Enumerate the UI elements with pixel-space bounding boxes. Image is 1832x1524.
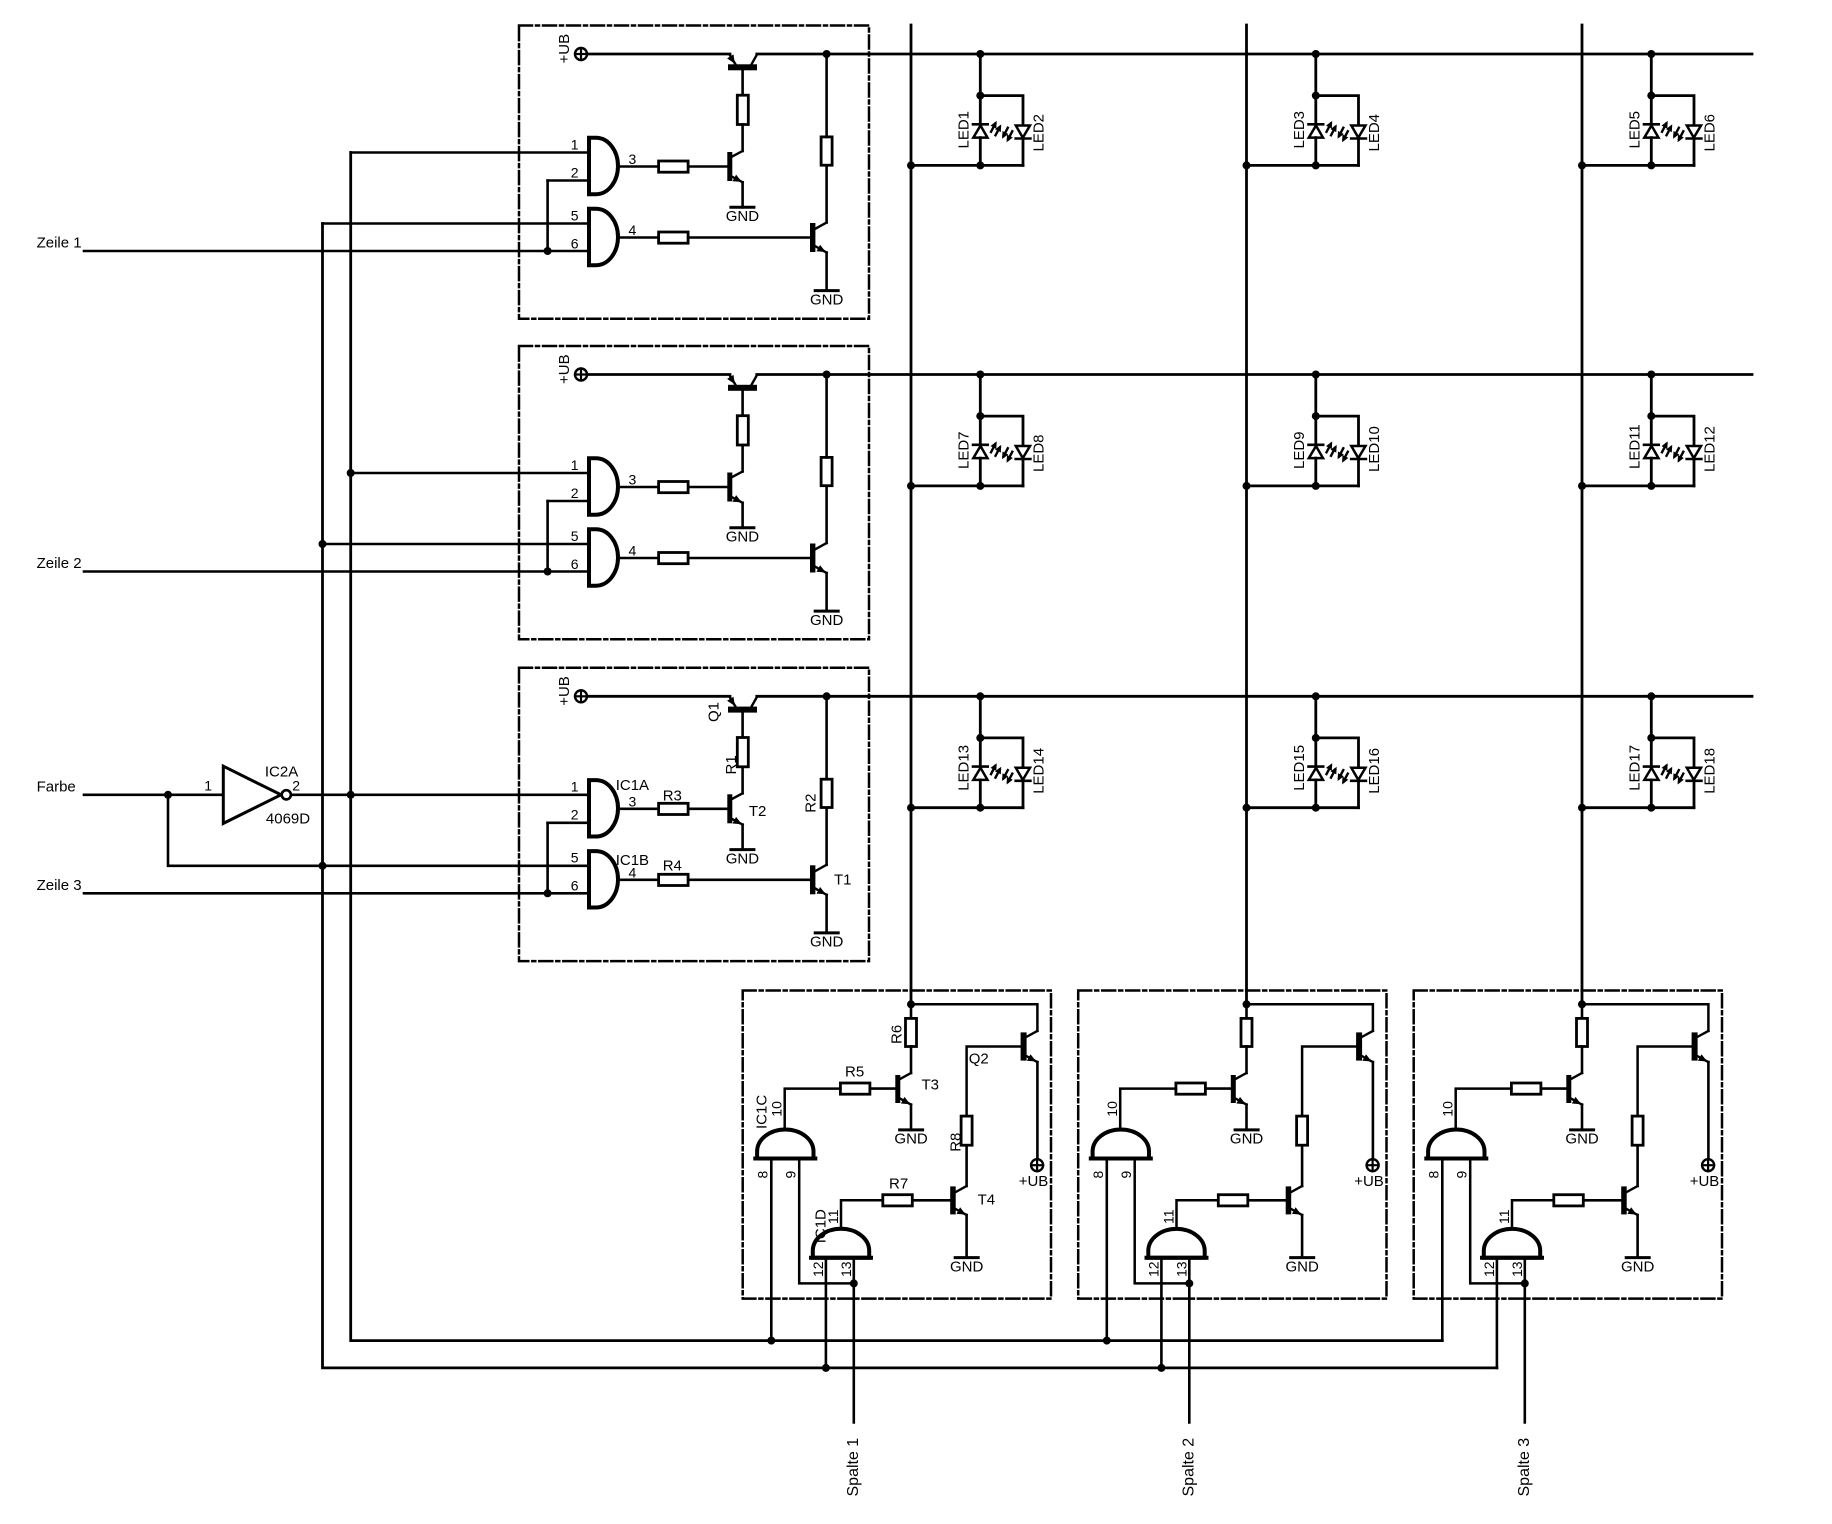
junction	[1578, 482, 1586, 490]
AND gate D (column block 2)	[1148, 1229, 1204, 1258]
wire LED pair to column rail	[1582, 484, 1694, 487]
wire branch to LED12	[1651, 416, 1694, 446]
junction	[544, 889, 552, 897]
resistor gate C series resistor (column block 2)	[1176, 1083, 1206, 1094]
AND gate A (row block 2)	[589, 458, 618, 514]
transistor NPN driver upper (column block 3)	[1566, 1073, 1582, 1130]
LED 16	[1338, 768, 1366, 808]
power +UB (column block 3)	[1702, 1159, 1714, 1171]
junction	[823, 50, 831, 58]
LED 10	[1338, 446, 1366, 486]
svg-text:13: 13	[838, 1261, 854, 1277]
wire R6 to T3 collector	[910, 1047, 913, 1074]
junction	[347, 469, 355, 477]
AND gate B (row block 2)	[589, 529, 618, 585]
transistor T3 (column block 1)	[895, 1073, 911, 1130]
LED 17	[1644, 738, 1672, 808]
svg-text:LED6: LED6	[1701, 114, 1718, 152]
svg-text:12: 12	[810, 1261, 826, 1277]
ground GND (column block 2 lower)	[1286, 1258, 1320, 1276]
svg-text:T2: T2	[749, 803, 767, 820]
wire LED pair to column rail	[1247, 484, 1359, 487]
node Zeile 1 input wire	[84, 250, 589, 253]
svg-text:R6: R6	[889, 1025, 906, 1044]
LED 14	[1002, 768, 1030, 808]
junction	[1647, 161, 1655, 169]
junction	[1647, 482, 1655, 490]
ground GND (row block 3 upper)	[726, 850, 760, 868]
wire gate B output pin 4 to R4	[618, 557, 659, 560]
power +UB (column block 1)	[1031, 1159, 1043, 1171]
ground GND (row block 1 lower)	[810, 291, 844, 309]
wire R4 to T1 base	[688, 878, 810, 881]
wire rail junction to Q2 collector branch	[1247, 1004, 1373, 1031]
AND gate A (row block 1)	[589, 138, 618, 194]
resistor gate D series resistor (column block 3)	[1554, 1195, 1584, 1206]
svg-text:1: 1	[571, 457, 579, 473]
svg-text:5: 5	[571, 850, 579, 866]
LED 13	[973, 738, 1001, 808]
transistor T2 (row block 3)	[727, 793, 742, 849]
row driver block 1 (dash-dot boundary)	[519, 26, 869, 319]
resistor coupling resistor (column block 3)	[1632, 1116, 1643, 1145]
svg-text:+UB: +UB	[1019, 1173, 1049, 1190]
wire pin 8 input	[1106, 1159, 1109, 1341]
wire row tap	[1650, 375, 1653, 417]
junction	[1243, 1000, 1251, 1008]
svg-text:GND: GND	[950, 1258, 984, 1275]
junction	[822, 1364, 830, 1372]
junction	[976, 371, 984, 379]
wire branch to LED14	[980, 738, 1023, 768]
svg-text:13: 13	[1174, 1261, 1190, 1277]
svg-text:+UB: +UB	[556, 34, 573, 64]
ground GND (row block 2 upper)	[726, 528, 760, 546]
resistor base resistor upper (row block 1)	[737, 95, 748, 124]
wire R7 to T4 base	[1248, 1199, 1286, 1202]
svg-text:3: 3	[629, 472, 637, 488]
resistor R3 (row block 3)	[659, 803, 689, 814]
junction	[1243, 161, 1251, 169]
node Zeile 2 input wire	[84, 570, 589, 573]
svg-text:GND: GND	[726, 208, 760, 225]
svg-text:+UB: +UB	[556, 354, 573, 384]
junction	[347, 791, 355, 799]
svg-text:LED16: LED16	[1366, 748, 1383, 794]
transistor PNP row switch (row block 1)	[727, 54, 757, 95]
svg-text:Farbe: Farbe	[37, 778, 76, 795]
LED 5	[1644, 96, 1672, 166]
svg-text:9: 9	[1118, 1171, 1134, 1179]
wire LED pair to column rail	[911, 164, 1023, 167]
wire R8 to Q2 base	[967, 1047, 1021, 1117]
junction	[976, 50, 984, 58]
wire row 3 supply rail from +UB to Q1 emitter	[587, 695, 730, 698]
wire block1 gate A pin1 feed	[351, 151, 589, 154]
ground GND (row block 2 lower)	[810, 611, 844, 629]
svg-text:T1: T1	[834, 872, 852, 889]
resistor gate D series resistor (column block 2)	[1218, 1195, 1248, 1206]
wire	[741, 125, 744, 152]
wire block1 gate B pin5 feed	[323, 222, 590, 225]
junction	[823, 371, 831, 379]
wire R5 to T3 base	[1541, 1087, 1566, 1090]
LED 15	[1309, 738, 1337, 808]
svg-text:LED8: LED8	[1030, 434, 1047, 472]
svg-text:Q2: Q2	[969, 1051, 989, 1068]
transistor NPN driver lower (column block 2)	[1286, 1145, 1302, 1257]
svg-text:12: 12	[1146, 1261, 1162, 1277]
svg-text:R5: R5	[845, 1063, 864, 1080]
svg-text:LED9: LED9	[1291, 431, 1308, 469]
wire pin 2 tie to pin 6	[548, 500, 589, 503]
junction	[1578, 161, 1586, 169]
resistor collector resistor upper (column block 3)	[1577, 1018, 1588, 1046]
junction	[1312, 482, 1320, 490]
wire rail junction to Q2 collector branch	[1582, 1004, 1708, 1031]
wire gate IC1C output pin 10	[785, 1089, 841, 1131]
ground GND (row block 1 upper)	[726, 207, 760, 225]
wire row 1 line from Q1 collector to right end	[757, 53, 1752, 56]
net inverted-colour bus (IC2A output distribution)	[351, 153, 1443, 1341]
svg-text:4069D: 4069D	[266, 811, 310, 828]
wire pin 9 input tied to pin 13	[799, 1159, 854, 1284]
svg-text:4: 4	[629, 222, 637, 238]
junction	[1578, 804, 1586, 812]
svg-text:9: 9	[1454, 1171, 1470, 1179]
resistor R7 (column block 1)	[883, 1195, 913, 1206]
svg-text:IC1C: IC1C	[754, 1095, 771, 1129]
junction	[976, 692, 984, 700]
wire R5 to T3 base	[870, 1087, 895, 1090]
junction	[544, 568, 552, 576]
svg-text:LED1: LED1	[955, 111, 972, 149]
row driver block 2 (dash-dot boundary)	[519, 346, 869, 639]
node Spalte 1 wire (pin 13)	[852, 1258, 855, 1423]
svg-text:8: 8	[1090, 1171, 1106, 1179]
svg-text:R4: R4	[663, 858, 682, 875]
wire R7 to T4 base	[1583, 1199, 1621, 1202]
svg-text:GND: GND	[894, 1130, 928, 1147]
AND gate C (column block 3)	[1428, 1130, 1484, 1159]
resistor collector resistor upper (column block 2)	[1241, 1018, 1252, 1046]
junction	[1521, 1279, 1529, 1287]
junction	[907, 804, 915, 812]
wire branch to LED16	[1316, 738, 1359, 768]
svg-text:GND: GND	[1286, 1258, 1320, 1275]
junction	[319, 540, 327, 548]
wire R6 to T3 collector	[1581, 1047, 1584, 1074]
LED 12	[1673, 446, 1701, 486]
junction	[1312, 161, 1320, 169]
wire row 1 supply rail from +UB to Q1 emitter	[587, 53, 730, 56]
svg-text:6: 6	[571, 235, 579, 251]
resistor gate B series resistor (row block 2)	[659, 553, 689, 564]
junction	[976, 412, 984, 420]
svg-text:IC1D: IC1D	[813, 1209, 830, 1243]
node Spalte 2 wire (pin 13)	[1188, 1258, 1191, 1423]
resistor R8 (column block 1)	[961, 1116, 972, 1145]
svg-text:+UB: +UB	[1354, 1173, 1384, 1190]
wire R5 to T3 base	[1205, 1087, 1230, 1090]
svg-text:2: 2	[571, 807, 579, 823]
wire gate IC1D output pin 11 to R7	[841, 1200, 883, 1229]
power +UB (row block 3)	[575, 690, 587, 702]
svg-text:LED15: LED15	[1291, 745, 1308, 791]
wire pin 12 input	[1160, 1258, 1163, 1368]
junction	[1157, 1364, 1165, 1372]
junction	[1578, 1000, 1586, 1008]
wire R7 to T4 base	[912, 1199, 950, 1202]
wire column 3 rail	[1581, 25, 1584, 1004]
wire block2 gate A pin1 feed	[351, 472, 589, 475]
svg-text:11: 11	[1496, 1209, 1512, 1224]
svg-text:LED12: LED12	[1701, 426, 1718, 472]
svg-text:GND: GND	[810, 291, 844, 308]
wire LED pair to column rail	[911, 484, 1023, 487]
svg-text:13: 13	[1509, 1261, 1525, 1277]
svg-text:10: 10	[1440, 1101, 1456, 1117]
svg-text:LED3: LED3	[1291, 111, 1308, 149]
junction	[1312, 371, 1320, 379]
wire branch to LED2	[980, 96, 1023, 126]
svg-text:GND: GND	[1230, 1130, 1264, 1147]
row driver block 3 (dash-dot boundary)	[519, 668, 869, 961]
junction	[164, 791, 172, 799]
AND gate B (row block 1)	[589, 209, 618, 265]
svg-text:3: 3	[629, 151, 637, 167]
junction	[1185, 1279, 1193, 1287]
wire junction to R6	[1581, 1004, 1584, 1018]
LED 6	[1673, 126, 1701, 166]
transistor NPN driver lower (row block 1)	[810, 165, 827, 290]
svg-text:8: 8	[1426, 1171, 1442, 1179]
junction	[976, 804, 984, 812]
junction	[823, 692, 831, 700]
column driver block 2 (dash-dot boundary)	[1078, 991, 1386, 1299]
svg-text:IC1A: IC1A	[616, 777, 649, 794]
inverter IC2A (4069D)	[223, 766, 291, 823]
AND gate IC1B (row block 3)	[589, 851, 618, 907]
svg-text:Zeile 2: Zeile 2	[37, 555, 82, 572]
svg-text:R7: R7	[889, 1176, 908, 1193]
svg-text:GND: GND	[726, 529, 760, 546]
resistor collector resistor (row block 2)	[821, 457, 832, 485]
resistor coupling resistor (column block 2)	[1297, 1116, 1308, 1145]
wire	[741, 445, 744, 472]
svg-text:8: 8	[755, 1171, 771, 1179]
wire R3 to T2 base	[688, 486, 727, 489]
svg-text:2: 2	[571, 485, 579, 501]
node Farbe input wire	[84, 793, 223, 796]
LED 8	[1002, 446, 1030, 486]
svg-text:LED11: LED11	[1626, 424, 1643, 469]
resistor collector resistor (row block 1)	[821, 137, 832, 165]
wire row tap	[1314, 54, 1317, 96]
transistor NPN column switch (column block 2)	[1356, 1031, 1373, 1159]
svg-text:R3: R3	[663, 788, 682, 805]
transistor NPN driver upper (row block 2)	[727, 472, 742, 528]
svg-text:LED5: LED5	[1626, 111, 1643, 149]
svg-text:LED10: LED10	[1366, 426, 1383, 472]
junction	[976, 161, 984, 169]
junction	[1647, 412, 1655, 420]
wire R3 to T2 base	[688, 165, 727, 168]
junction	[544, 247, 552, 255]
node Zeile 3 input wire	[84, 892, 589, 895]
resistor base resistor upper (row block 2)	[737, 416, 748, 445]
wire column 2 rail	[1245, 25, 1248, 1004]
resistor R1 (row block 3)	[737, 738, 748, 767]
AND gate IC1C (column block 1)	[757, 1130, 813, 1159]
junction	[1312, 412, 1320, 420]
wire gate A output pin 3 to R3	[618, 807, 659, 810]
junction	[1243, 804, 1251, 812]
wire row tap	[1650, 696, 1653, 738]
svg-text:T4: T4	[978, 1191, 996, 1208]
junction	[1312, 804, 1320, 812]
svg-text:4: 4	[629, 864, 637, 880]
svg-text:Spalte 1: Spalte 1	[845, 1438, 862, 1497]
svg-text:6: 6	[571, 878, 579, 894]
svg-text:10: 10	[769, 1101, 785, 1117]
ground GND (row block 3 lower)	[810, 933, 844, 951]
wire pin 2 tie to pin 6	[548, 179, 589, 182]
wire pin 9 input tied to pin 13	[1135, 1159, 1190, 1284]
wire IC2A output to gate A pin1 (block3)	[291, 793, 589, 796]
svg-text:5: 5	[571, 207, 579, 223]
junction	[1647, 692, 1655, 700]
transistor NPN driver lower (row block 2)	[810, 486, 827, 611]
resistor R6 (column block 1)	[906, 1018, 917, 1046]
wire R3 to T2 base	[688, 807, 727, 810]
wire gate IC1D output pin 11 to R7	[1177, 1200, 1219, 1229]
wire row tap	[979, 696, 982, 738]
svg-text:Zeile 1: Zeile 1	[37, 235, 82, 252]
wire Farbe to gate B pin5 feed (block3)	[168, 795, 589, 866]
ground GND (column block 1 lower)	[950, 1258, 984, 1276]
LED 2	[1002, 126, 1030, 166]
junction	[1243, 482, 1251, 490]
ground GND (column block 2 upper)	[1230, 1130, 1264, 1148]
wire row 2 line from Q1 collector to right end	[757, 373, 1752, 376]
power +UB (row block 1)	[575, 48, 587, 60]
svg-text:GND: GND	[726, 850, 760, 867]
wire gate IC1D output pin 11 to R7	[1512, 1200, 1554, 1229]
svg-text:5: 5	[571, 528, 579, 544]
wire LED pair to column rail	[1247, 806, 1359, 809]
AND gate D (column block 3)	[1484, 1229, 1540, 1258]
svg-text:LED4: LED4	[1366, 114, 1383, 152]
junction	[907, 482, 915, 490]
wire row tap	[979, 375, 982, 417]
svg-text:LED14: LED14	[1030, 748, 1047, 794]
svg-text:GND: GND	[1621, 1258, 1655, 1275]
wire R2 to row line	[825, 696, 828, 779]
wire R2 to row line	[825, 375, 828, 458]
junction	[1647, 804, 1655, 812]
svg-text:1: 1	[571, 136, 579, 152]
wire pin 8 input	[770, 1159, 773, 1341]
wire block2 gate B pin5 feed	[323, 543, 590, 546]
junction	[1312, 692, 1320, 700]
svg-text:GND: GND	[810, 934, 844, 951]
resistor R5 (column block 1)	[840, 1083, 870, 1094]
wire branch to LED18	[1651, 738, 1694, 768]
wire row tap	[1314, 375, 1317, 417]
svg-text:Spalte 3: Spalte 3	[1516, 1438, 1533, 1497]
svg-text:12: 12	[1481, 1261, 1497, 1277]
resistor R2 (row block 3)	[821, 779, 832, 807]
wire branch to LED8	[980, 416, 1023, 446]
wire pin 2 tie to pin 6	[548, 821, 589, 824]
LED 18	[1673, 768, 1701, 808]
wire gate IC1C output pin 10	[1120, 1089, 1176, 1131]
svg-text:GND: GND	[1565, 1130, 1599, 1147]
wire gate B output pin 4 to R4	[618, 236, 659, 239]
wire row tap	[979, 54, 982, 96]
transistor NPN column switch (column block 3)	[1692, 1031, 1709, 1159]
junction	[1312, 50, 1320, 58]
svg-text:R1: R1	[723, 755, 740, 774]
svg-text:1: 1	[204, 778, 212, 794]
wire row 3 line from Q1 collector to right end	[757, 695, 1752, 698]
resistor gate C series resistor (column block 3)	[1511, 1083, 1541, 1094]
svg-text:GND: GND	[810, 612, 844, 629]
ground GND (column block 1 upper)	[894, 1130, 928, 1148]
power +UB (row block 2)	[575, 369, 587, 381]
svg-text:R2: R2	[803, 794, 820, 813]
net Farbe bus (direct colour distribution)	[323, 224, 1497, 1368]
resistor gate A series resistor (row block 2)	[659, 482, 689, 493]
wire column 1 rail	[910, 25, 913, 1004]
svg-text:R8: R8	[947, 1133, 964, 1152]
wire row tap	[1650, 54, 1653, 96]
transistor NPN driver upper (row block 1)	[727, 151, 742, 207]
node Spalte 3 wire (pin 13)	[1524, 1258, 1527, 1423]
wire R4 to T1 base	[688, 236, 810, 239]
svg-text:2: 2	[292, 778, 300, 794]
svg-text:4: 4	[629, 543, 637, 559]
wire branch to LED10	[1316, 416, 1359, 446]
junction	[319, 862, 327, 870]
svg-text:LED2: LED2	[1030, 114, 1047, 152]
junction	[1647, 92, 1655, 100]
LED 7	[973, 416, 1001, 486]
svg-text:Q1: Q1	[705, 702, 722, 722]
wire R6 to T3 collector	[1245, 1047, 1248, 1074]
LED 1	[973, 96, 1001, 166]
svg-text:1: 1	[571, 779, 579, 795]
junction	[1647, 371, 1655, 379]
AND gate IC1D (column block 1)	[813, 1229, 869, 1258]
svg-text:LED17: LED17	[1626, 745, 1643, 791]
wire	[741, 767, 744, 794]
wire gate IC1C output pin 10	[1456, 1089, 1512, 1131]
AND gate C (column block 2)	[1093, 1130, 1149, 1159]
svg-text:Zeile 3: Zeile 3	[37, 877, 82, 894]
svg-text:LED7: LED7	[955, 431, 972, 469]
transistor Q1 (row block 3)	[727, 697, 757, 738]
ground GND (column block 3 lower)	[1621, 1258, 1655, 1276]
wire R8 to Q2 base	[1638, 1047, 1692, 1117]
wire rail junction to Q2 collector branch	[911, 1004, 1037, 1031]
svg-text:T3: T3	[922, 1076, 940, 1093]
junction	[1647, 734, 1655, 742]
junction	[767, 1337, 775, 1345]
LED 4	[1338, 126, 1366, 166]
resistor R4 (row block 3)	[659, 874, 689, 885]
